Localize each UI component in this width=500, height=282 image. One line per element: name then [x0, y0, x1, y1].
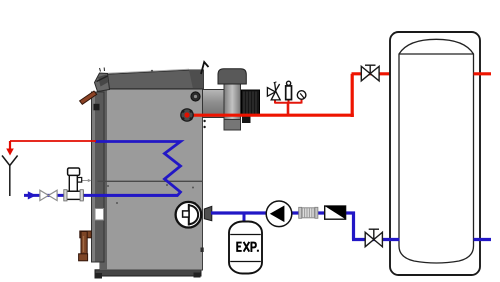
- thermostat well (dark circle on boiler top right): [191, 92, 200, 101]
- wire: blue drop to bottom run: [352, 212, 355, 240]
- flexible connector (hatched): [299, 207, 318, 218]
- expansion vessel: [229, 222, 262, 274]
- screws on face: [107, 70, 196, 204]
- check valve (non-return): [266, 201, 292, 227]
- wire: blue return main from pump: [211, 211, 355, 214]
- small port nub on boiler right edge: [201, 248, 204, 253]
- wire: red hot supply main (boiler to riser): [186, 114, 354, 117]
- wire: red top run to tank: [352, 72, 400, 75]
- boiler top band: [100, 70, 204, 89]
- drain cock assembly (brown, bottom left): [79, 231, 92, 261]
- hinge block on left edge: [94, 104, 100, 111]
- boiler face seam line: [98, 180, 203, 182]
- shut-off valve on red top run: [361, 65, 379, 81]
- flue elbow cap: [218, 69, 246, 84]
- pressure gauge symbol: [297, 91, 306, 100]
- boiler body: [92, 69, 204, 278]
- boiler left dark strip: [100, 88, 107, 270]
- safety relief valve symbol: [267, 82, 280, 100]
- wire: blue cold water feed line: [24, 194, 178, 197]
- exhaust fan housing: [224, 82, 241, 121]
- boiler foot right: [194, 273, 201, 278]
- wire: red riser: [351, 74, 354, 117]
- rivets below flue collar: [203, 120, 205, 122]
- blue port stub right: [474, 238, 492, 241]
- boiler base plinth: [95, 270, 201, 276]
- flue damper lever: [201, 62, 209, 74]
- wire: blue internal top line and cooling coil zigzag: [95, 142, 181, 196]
- red port stub right: [474, 72, 492, 75]
- expansion vessel tee: [243, 214, 246, 222]
- loading door hinge bracket (top-left corner): [95, 68, 110, 92]
- boiler foot left: [95, 273, 103, 279]
- drain funnel (tundish): [2, 156, 18, 197]
- boiler left door column: [92, 92, 105, 262]
- boiler front face: [100, 88, 203, 270]
- wire: thin red discharge line to drain funnel: [6, 141, 96, 156]
- pump outlet union fitting: [204, 206, 212, 220]
- accumulator tank inner vessel: [399, 39, 474, 263]
- accumulator tank outer shell: [390, 32, 480, 275]
- tank top chord line: [399, 53, 474, 55]
- white thermostat box on left edge: [95, 209, 104, 221]
- fill valve (grey bowtie) on feed line: [40, 190, 57, 200]
- safety group manifold (red): [275, 99, 302, 115]
- fan motor (black finned): [242, 90, 260, 116]
- boiler outlet flange: [181, 109, 193, 121]
- shut-off valve on blue bottom run: [365, 229, 382, 247]
- flow arrow on feed line: [28, 191, 36, 199]
- automatic air vent symbol: [286, 81, 292, 99]
- pressure reducing / fill unit on feed line: [64, 168, 92, 201]
- circulation pump on boiler: [176, 202, 202, 228]
- wire: blue bottom run to tank: [352, 238, 400, 241]
- door handle (brown rod): [80, 91, 97, 104]
- balancing valve (half-black square): [325, 206, 346, 219]
